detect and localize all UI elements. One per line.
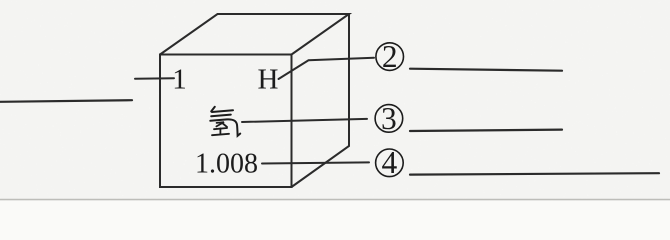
- element cell cube: right face: [292, 14, 350, 187]
- circled number 2: [376, 39, 404, 74]
- pointer line from element name to circled 3: [242, 119, 367, 122]
- pointer line from 1.008 to circled 4: [262, 162, 369, 163]
- pointer line (left) to atomic number 1: [135, 77, 174, 80]
- svg-text:1.008: 1.008: [195, 148, 258, 179]
- pointer line from H to circled 2: [279, 58, 375, 79]
- element cell cube: front face: [160, 55, 292, 188]
- scan artifact: faint gray line along bottom edge: [0, 199, 670, 201]
- circled number 4: [376, 145, 404, 180]
- circled number 3: [375, 101, 403, 136]
- blank answer line after circled 2: [410, 69, 562, 71]
- svg-text:4: 4: [382, 145, 398, 180]
- element cell cube: top face: [160, 14, 349, 55]
- svg-text:2: 2: [382, 39, 398, 74]
- svg-text:H: H: [258, 63, 279, 95]
- element name glyph (Chinese: hydrogen), hand-drawn strokes: [210, 107, 240, 136]
- svg-text:1: 1: [172, 63, 187, 95]
- svg-text:3: 3: [381, 101, 397, 136]
- blank answer line after circled 4: [410, 173, 659, 174]
- blank answer line (left): [0, 100, 132, 102]
- blank answer line after circled 3: [410, 130, 562, 131]
